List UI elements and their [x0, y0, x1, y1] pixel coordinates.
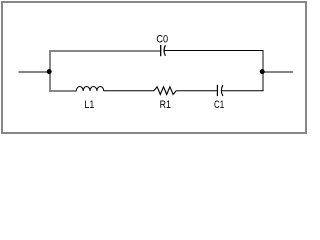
wire C0 right lead [164, 50, 263, 52]
resistor R1 [154, 87, 176, 95]
node B (right junction dot) [260, 69, 265, 74]
inductor L1 [76, 87, 103, 91]
svg-text:C1: C1 [214, 99, 224, 111]
svg-text:C0: C0 [156, 34, 168, 46]
wire right vertical [262, 50, 264, 91]
wire right terminal stub [262, 71, 293, 73]
capacitor C1 [217, 85, 223, 96]
wire R1-C1 lead [176, 90, 217, 92]
border frame [2, 2, 306, 133]
wire left branch: top run, left vertical, bottom run [50, 51, 161, 91]
wire L1-R1 lead [104, 90, 155, 92]
wire left terminal stub [19, 71, 50, 73]
node A (left junction dot) [47, 69, 52, 74]
svg-text:L1: L1 [84, 99, 94, 111]
capacitor C0 [161, 45, 166, 56]
svg-text:R1: R1 [160, 99, 171, 111]
wire C1 right lead [222, 90, 264, 92]
